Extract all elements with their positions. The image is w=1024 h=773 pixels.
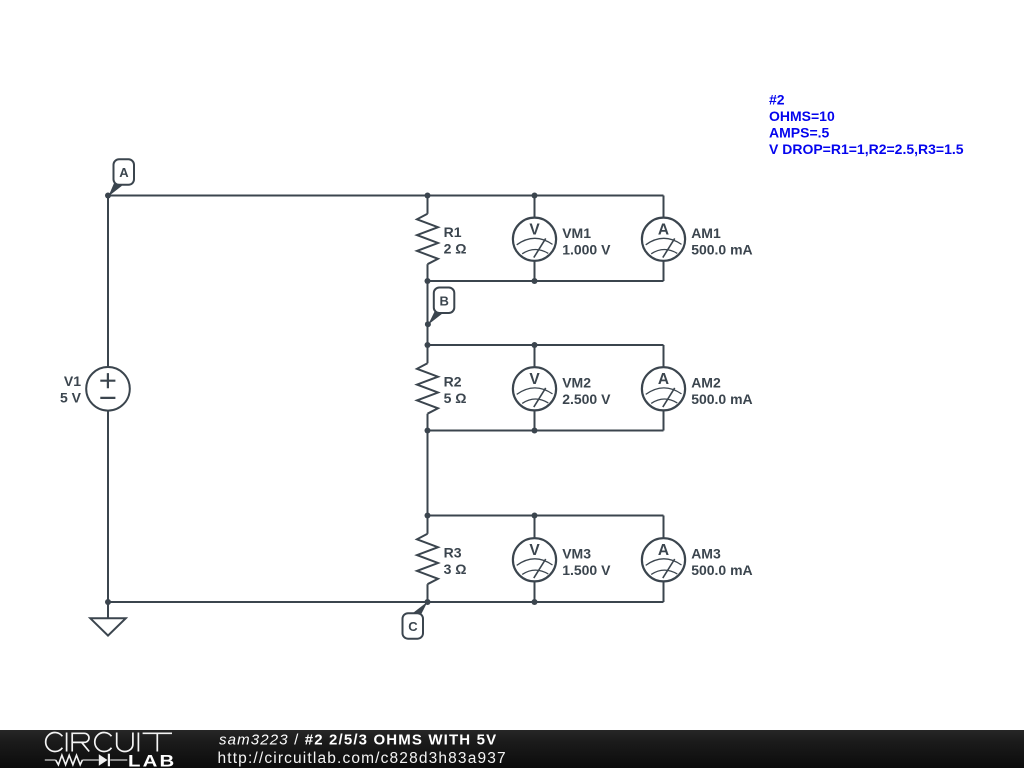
svg-text:V: V [529,222,540,239]
resistor R2 [417,345,438,431]
wire node B segment [427,281,429,345]
svg-text:V: V [529,542,540,559]
svg-text:A: A [658,542,669,559]
svg-text:2 Ω: 2 Ω [444,240,467,256]
svg-text:5 Ω: 5 Ω [444,390,467,406]
svg-text:AM2: AM2 [691,375,721,391]
annotation text [769,91,964,157]
svg-text:http://circuitlab.com/c828d3h8: http://circuitlab.com/c828d3h83a937 [218,750,507,767]
svg-text:5 V: 5 V [60,389,82,405]
node B [425,288,454,328]
wire bottom rail node C [108,601,664,603]
junction row1 bottom / VM1 [532,278,538,284]
svg-text:OHMS=10: OHMS=10 [769,108,835,124]
wire top rail node A [108,195,664,197]
voltmeter VM2 [513,345,556,431]
svg-text:2.500 V: 2.500 V [562,391,611,407]
junction row2 top / VM2 [532,342,538,348]
resistor R3 [417,516,438,603]
resistor R1 [417,196,438,282]
wire row2 top [428,344,664,346]
ammeter AM2 [642,345,685,431]
junction row2 top / R2 [425,342,431,348]
svg-text:VM2: VM2 [562,375,591,391]
svg-text:V DROP=R1=1,R2=2.5,R3=1.5: V DROP=R1=1,R2=2.5,R3=1.5 [769,141,964,157]
svg-text:3 Ω: 3 Ω [444,561,467,577]
CircuitLab logo wordmark CIRCUIT [46,733,172,752]
svg-text:#2: #2 [769,91,785,107]
svg-text:1.000 V: 1.000 V [562,241,611,257]
svg-text:R3: R3 [444,545,462,561]
svg-text:R1: R1 [444,224,462,240]
svg-text:C: C [408,619,418,634]
wire row3 top [428,515,664,517]
junction row2 bottom / R2 [425,428,431,434]
svg-text:B: B [440,293,449,308]
svg-text:VM3: VM3 [562,546,591,562]
svg-text:500.0 mA: 500.0 mA [691,391,752,407]
node A [105,159,134,198]
wire left rail lower [107,411,109,602]
svg-text:A: A [119,165,129,180]
voltmeter VM1 [513,196,556,282]
svg-text:V1: V1 [64,373,81,389]
junction row1 bottom / R1 [425,278,431,284]
svg-text:AM1: AM1 [691,225,721,241]
junction top rail / VM1 [532,193,538,199]
junction row3 top / R3 [425,513,431,519]
junction bottom rail / VM3 [532,599,538,605]
wire left rail upper [107,196,109,368]
svg-text:A: A [658,222,669,239]
junction row3 top / VM3 [532,513,538,519]
svg-text:V: V [529,371,540,388]
svg-text:AM3: AM3 [691,546,721,562]
svg-text:1.500 V: 1.500 V [562,562,611,578]
ammeter AM3 [642,516,685,603]
svg-text:VM1: VM1 [562,225,591,241]
wire row2 bottom [428,430,664,432]
ammeter AM1 [642,196,685,282]
svg-text:R2: R2 [444,374,462,390]
CircuitLab logo resistor-diode symbol [45,754,128,767]
wire row1 bottom [428,280,664,282]
svg-text:500.0 mA: 500.0 mA [691,241,752,257]
voltmeter VM3 [513,516,556,603]
svg-text:sam3223 / #2 2/5/3 OHMS WITH 5: sam3223 / #2 2/5/3 OHMS WITH 5V [219,732,497,749]
junction top rail / R1 [425,193,431,199]
svg-text:500.0 mA: 500.0 mA [691,562,752,578]
wire R2-R3 interconnect [427,431,429,516]
svg-text:LAB: LAB [128,751,176,768]
svg-text:AMPS=.5: AMPS=.5 [769,124,830,140]
voltage source V1 [86,367,130,411]
ground [90,602,125,636]
svg-text:A: A [658,371,669,388]
junction bottom rail / ground [105,599,111,605]
junction row2 bottom / VM2 [532,428,538,434]
node C [403,599,431,639]
CircuitLab logo LAB [128,751,176,770]
